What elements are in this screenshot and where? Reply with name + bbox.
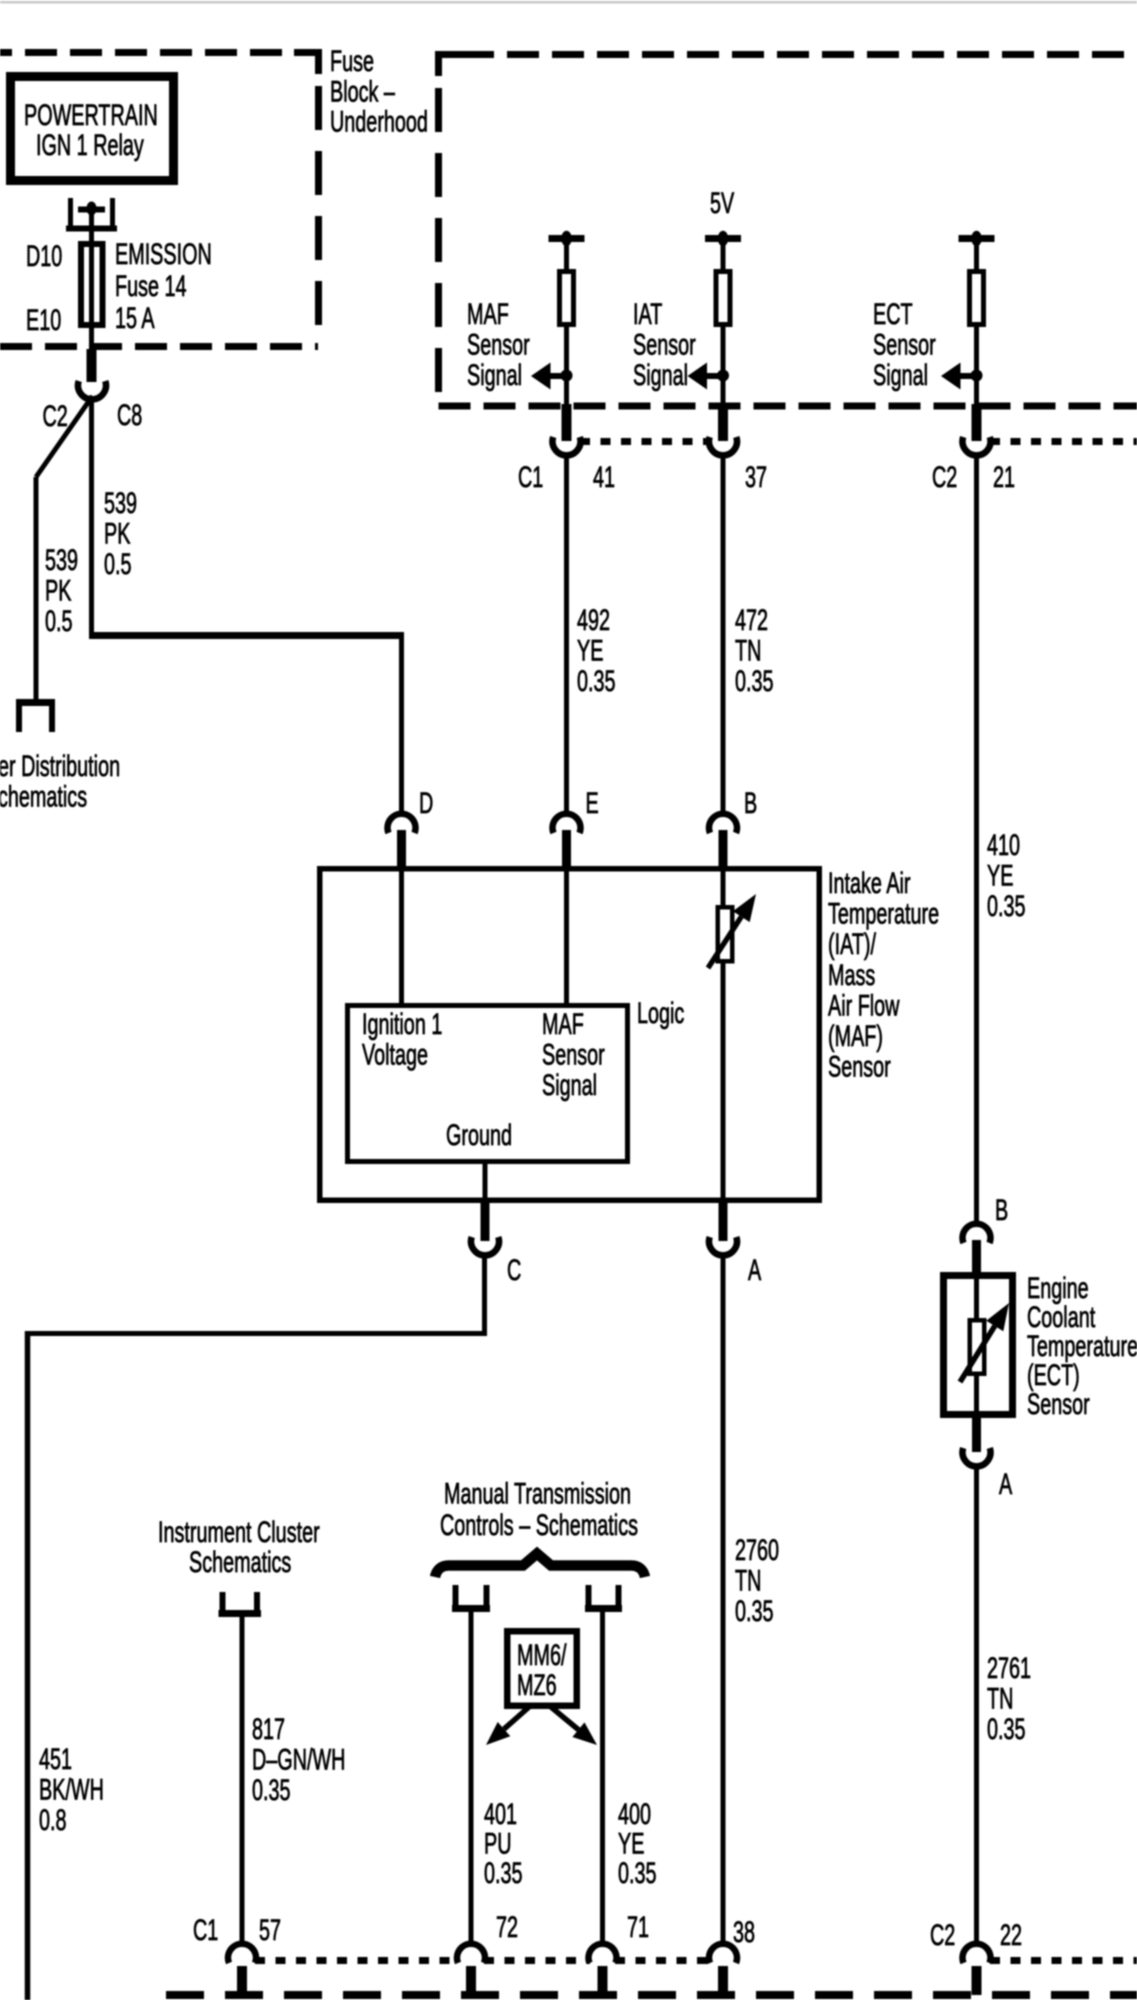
thermistor ECT symbol <box>960 1303 1009 1382</box>
svg-text:0.8: 0.8 <box>39 1804 67 1837</box>
svg-text:451: 451 <box>39 1743 72 1776</box>
box MM6/MZ6 <box>507 1631 577 1706</box>
connector bottom pin 72 arc <box>457 1944 485 1995</box>
label pin A ECT <box>999 1468 1012 1501</box>
label C2 <box>43 400 68 433</box>
label 2760 TN 0.35 <box>735 1534 779 1628</box>
svg-text:YE: YE <box>618 1828 644 1861</box>
label 72 <box>496 1911 518 1944</box>
svg-text:0.35: 0.35 <box>252 1774 291 1807</box>
label 401 PU 0.35 <box>484 1798 523 1890</box>
label 71 <box>627 1911 649 1944</box>
label 492 YE 0.35 <box>577 604 616 698</box>
svg-text:Sensor: Sensor <box>873 329 936 362</box>
svg-text:D: D <box>419 787 433 820</box>
label D10 pin <box>26 240 62 273</box>
MAF/IAT sensor box <box>320 869 820 1201</box>
connector pin B ECT arc <box>963 1224 991 1275</box>
svg-text:21: 21 <box>993 461 1015 494</box>
dotted connector line C1 top <box>580 438 710 445</box>
dotted connector line bottom C1 c <box>615 1957 710 1964</box>
ECT sensor box <box>944 1276 1013 1415</box>
svg-text:0.35: 0.35 <box>987 1713 1026 1746</box>
svg-text:D–GN/WH: D–GN/WH <box>252 1744 345 1777</box>
svg-text:22: 22 <box>1000 1919 1022 1952</box>
svg-text:MAF: MAF <box>467 298 509 331</box>
off-page connector MT left <box>452 1585 490 1612</box>
svg-text:Schematics: Schematics <box>189 1546 291 1579</box>
label 472 TN 0.35 <box>735 604 774 698</box>
fuse block underhood box left (dashed) <box>0 53 319 347</box>
svg-text:POWERTRAIN: POWERTRAIN <box>24 99 158 132</box>
svg-text:0.35: 0.35 <box>577 665 616 698</box>
label 451 BK/WH 0.8 <box>39 1743 104 1837</box>
connector C2/C8 junction arc <box>78 381 106 399</box>
label Fuse Block - Underhood <box>330 45 428 139</box>
fuse F14 EMISSION 15A symbol <box>81 243 103 330</box>
label C2 bottom <box>930 1919 955 1952</box>
svg-text:PK: PK <box>104 518 130 551</box>
label 41 <box>593 461 615 494</box>
wire 400 YE <box>600 1610 605 1946</box>
svg-text:539: 539 <box>104 487 137 520</box>
label C1 <box>518 461 543 494</box>
svg-text:539: 539 <box>45 544 78 577</box>
svg-text:C: C <box>507 1254 521 1287</box>
label pin E <box>586 787 599 820</box>
PCM dashed box top <box>439 55 1137 407</box>
label C1 bottom <box>193 1914 218 1947</box>
label E10 pin <box>26 304 61 337</box>
label Instrument Cluster Schematics <box>158 1516 320 1579</box>
connector pin A arc <box>709 1203 737 1255</box>
resistor pull-up IAT with 5V node <box>688 231 742 441</box>
svg-text:YE: YE <box>987 860 1013 893</box>
svg-text:Manual Transmission: Manual Transmission <box>444 1478 631 1511</box>
connector bottom pin 38 arc <box>709 1944 737 1995</box>
svg-text:Sensor: Sensor <box>1027 1388 1090 1421</box>
svg-text:41: 41 <box>593 461 615 494</box>
svg-text:er Distribution: er Distribution <box>0 750 120 783</box>
svg-text:(MAF): (MAF) <box>828 1020 883 1053</box>
svg-text:401: 401 <box>484 1798 517 1831</box>
label Engine Coolant Temperature (ECT) Sensor <box>1027 1272 1137 1421</box>
svg-text:0.35: 0.35 <box>735 665 774 698</box>
svg-text:472: 472 <box>735 604 768 637</box>
svg-text:chematics: chematics <box>0 780 87 813</box>
svg-text:Controls – Schematics: Controls – Schematics <box>440 1509 638 1542</box>
svg-text:TN: TN <box>987 1683 1013 1716</box>
thermistor IAT symbol <box>708 894 756 968</box>
label 817 D-GN/WH 0.35 <box>252 1713 345 1807</box>
label 539 PK 0.5 right <box>104 487 137 581</box>
svg-text:71: 71 <box>627 1911 649 1944</box>
label 2761 TN 0.35 <box>987 1652 1031 1746</box>
resistor pull-up MAF with 5V node <box>531 231 585 441</box>
svg-text:400: 400 <box>618 1798 651 1831</box>
svg-text:Air Flow: Air Flow <box>828 989 900 1022</box>
svg-text:37: 37 <box>745 461 767 494</box>
connector bottom pin 71 arc <box>589 1944 617 1995</box>
svg-text:Sensor: Sensor <box>542 1039 605 1072</box>
arrow MM6 left <box>486 1707 529 1745</box>
connector C2 pin 21 arc <box>963 437 991 455</box>
svg-text:IAT: IAT <box>633 298 662 331</box>
svg-text:57: 57 <box>259 1914 281 1947</box>
label EMISSION Fuse 14 15 A <box>115 238 212 335</box>
connector pin C arc <box>471 1203 499 1255</box>
svg-text:PU: PU <box>484 1828 511 1861</box>
svg-text:E: E <box>586 787 599 820</box>
svg-text:C1: C1 <box>193 1914 218 1947</box>
svg-text:Block –: Block – <box>330 75 396 108</box>
svg-text:0.35: 0.35 <box>987 890 1026 923</box>
dotted connector line bottom C1 a <box>255 1957 458 1964</box>
off-page connector Instrument Cluster <box>219 1592 262 1617</box>
label MAF Sensor Signal <box>467 298 530 392</box>
top scan line <box>0 1 1137 4</box>
svg-text:ECT: ECT <box>873 298 913 331</box>
label 400 YE 0.35 <box>618 1798 657 1890</box>
dotted connector line bottom C2 <box>990 1957 1137 1964</box>
svg-text:Signal: Signal <box>873 359 928 392</box>
wire MAF signal inside sensor <box>564 868 569 1004</box>
wire 401 PU <box>469 1610 474 1946</box>
wire ground inside sensor <box>483 1164 488 1203</box>
svg-text:410: 410 <box>987 829 1020 862</box>
label pin D <box>419 787 433 820</box>
svg-text:Ground: Ground <box>446 1119 512 1152</box>
svg-text:Logic: Logic <box>637 997 685 1030</box>
connector bottom pin 22 arc <box>963 1944 991 1995</box>
wire 451 BK/WH <box>25 1253 487 2000</box>
svg-text:Sensor: Sensor <box>828 1051 891 1084</box>
label Power Distribution Schematics <box>0 750 120 813</box>
svg-text:Sensor: Sensor <box>633 329 696 362</box>
svg-text:IGN 1 Relay: IGN 1 Relay <box>36 129 144 162</box>
wire 472 TN <box>721 453 726 816</box>
label ECT Sensor Signal <box>873 298 936 392</box>
connector pin D arc <box>387 814 415 869</box>
label 38 <box>733 1916 755 1949</box>
svg-text:EMISSION: EMISSION <box>115 238 212 271</box>
svg-text:Mass: Mass <box>828 959 875 992</box>
wire 817 D-GN/WH <box>240 1617 245 1946</box>
svg-text:Fuse: Fuse <box>330 45 374 78</box>
wire 2760 TN <box>721 1253 726 1946</box>
label Intake Air Temperature (IAT)/ Mass Air Flow (MAF) Sensor <box>828 867 939 1084</box>
label 57 <box>259 1914 281 1947</box>
svg-text:0.5: 0.5 <box>45 605 73 638</box>
svg-text:0.5: 0.5 <box>104 548 132 581</box>
connector C1 pin 41 arc <box>553 437 581 455</box>
svg-text:Underhood: Underhood <box>330 106 428 139</box>
wire 2761 TN <box>974 1464 979 1946</box>
svg-text:E10: E10 <box>26 304 61 337</box>
svg-text:B: B <box>995 1194 1008 1227</box>
label pin C <box>507 1254 521 1287</box>
PCM dashed boundary bottom <box>166 1991 1137 1999</box>
label pin B <box>744 787 757 820</box>
label 539 PK 0.5 left <box>45 544 78 638</box>
label MAF Sensor Signal inside <box>542 1008 605 1102</box>
wire 492 YE <box>564 453 569 816</box>
svg-text:MAF: MAF <box>542 1008 584 1041</box>
off-page connector Power Distribution <box>16 700 55 732</box>
svg-text:C2: C2 <box>932 461 957 494</box>
off-page connector MT right <box>585 1585 622 1612</box>
svg-text:Signal: Signal <box>542 1069 597 1102</box>
svg-text:TN: TN <box>735 635 761 668</box>
relay K-PWR POWERTRAIN IGN 1 Relay box <box>11 77 174 181</box>
svg-text:MZ6: MZ6 <box>517 1669 557 1702</box>
svg-text:A: A <box>999 1468 1012 1501</box>
svg-text:C2: C2 <box>43 400 68 433</box>
connector pin E arc <box>553 814 581 869</box>
svg-text:Intake Air: Intake Air <box>828 867 911 900</box>
svg-text:817: 817 <box>252 1713 285 1746</box>
svg-text:MM6/: MM6/ <box>517 1639 567 1672</box>
wire ignition 1 voltage inside sensor <box>399 868 404 1004</box>
svg-text:Fuse 14: Fuse 14 <box>115 270 187 303</box>
svg-text:Sensor: Sensor <box>467 329 530 362</box>
label Ignition 1 Voltage <box>362 1008 442 1072</box>
svg-text:D10: D10 <box>26 240 62 273</box>
svg-text:Temperature: Temperature <box>828 898 939 931</box>
dotted connector line C2 top <box>990 438 1137 445</box>
label Manual Transmission Controls - Schematics <box>440 1478 638 1543</box>
label 21 <box>993 461 1015 494</box>
label C2 top <box>932 461 957 494</box>
svg-text:C8: C8 <box>117 399 142 432</box>
resistor pull-up ECT with 5V node <box>941 231 995 441</box>
label 22 <box>1000 1919 1022 1952</box>
svg-text:5V: 5V <box>710 187 734 220</box>
connector bottom pin 57 arc <box>228 1944 256 1995</box>
svg-text:72: 72 <box>496 1911 518 1944</box>
label 37 <box>745 461 767 494</box>
svg-text:PK: PK <box>45 575 71 608</box>
wire 539 PK diagonal to Power Distribution <box>36 396 93 701</box>
label pin B ECT <box>995 1194 1008 1227</box>
label POWERTRAIN IGN 1 Relay <box>24 99 158 162</box>
svg-text:BK/WH: BK/WH <box>39 1774 104 1807</box>
label Ground <box>446 1119 512 1152</box>
svg-text:2760: 2760 <box>735 1534 779 1567</box>
label C8 <box>117 399 142 432</box>
svg-text:15 A: 15 A <box>115 302 155 335</box>
svg-text:Instrument Cluster: Instrument Cluster <box>158 1516 320 1549</box>
svg-text:C1: C1 <box>518 461 543 494</box>
connector C1 pin 37 arc <box>709 437 737 455</box>
svg-text:Voltage: Voltage <box>362 1039 428 1072</box>
label IAT Sensor Signal <box>633 298 696 392</box>
svg-text:(IAT)/: (IAT)/ <box>828 928 877 961</box>
relay output terminal symbol <box>66 198 117 243</box>
svg-text:0.35: 0.35 <box>618 1857 657 1890</box>
logic box <box>348 1006 628 1162</box>
svg-text:TN: TN <box>735 1565 761 1598</box>
wire fuse to connector <box>89 328 94 382</box>
label 410 YE 0.35 <box>987 829 1026 923</box>
connector pin A ECT arc <box>963 1418 991 1466</box>
wire 410 YE <box>974 453 979 1227</box>
svg-text:Ignition 1: Ignition 1 <box>362 1008 442 1041</box>
svg-text:C2: C2 <box>930 1919 955 1952</box>
label 5V <box>710 187 734 220</box>
wire inside ECT <box>974 1275 979 1416</box>
svg-text:YE: YE <box>577 635 603 668</box>
svg-text:492: 492 <box>577 604 610 637</box>
svg-text:38: 38 <box>733 1916 755 1949</box>
svg-text:A: A <box>748 1254 761 1287</box>
svg-text:B: B <box>744 787 757 820</box>
label Logic <box>637 997 685 1030</box>
label MM6/MZ6 <box>517 1639 567 1702</box>
svg-text:2761: 2761 <box>987 1652 1031 1685</box>
svg-text:Signal: Signal <box>467 359 522 392</box>
connector pin B arc <box>709 814 737 869</box>
svg-text:0.35: 0.35 <box>484 1857 523 1890</box>
label pin A <box>748 1254 761 1287</box>
wire IAT inside sensor <box>721 868 726 1202</box>
svg-text:Signal: Signal <box>633 359 688 392</box>
brace Manual Transmission <box>435 1554 645 1578</box>
svg-text:0.35: 0.35 <box>735 1595 774 1628</box>
arrow MM6 right <box>551 1707 597 1745</box>
dotted connector line bottom C1 b <box>484 1957 590 1964</box>
wire 539 PK to MAF sensor pin D <box>89 397 404 816</box>
